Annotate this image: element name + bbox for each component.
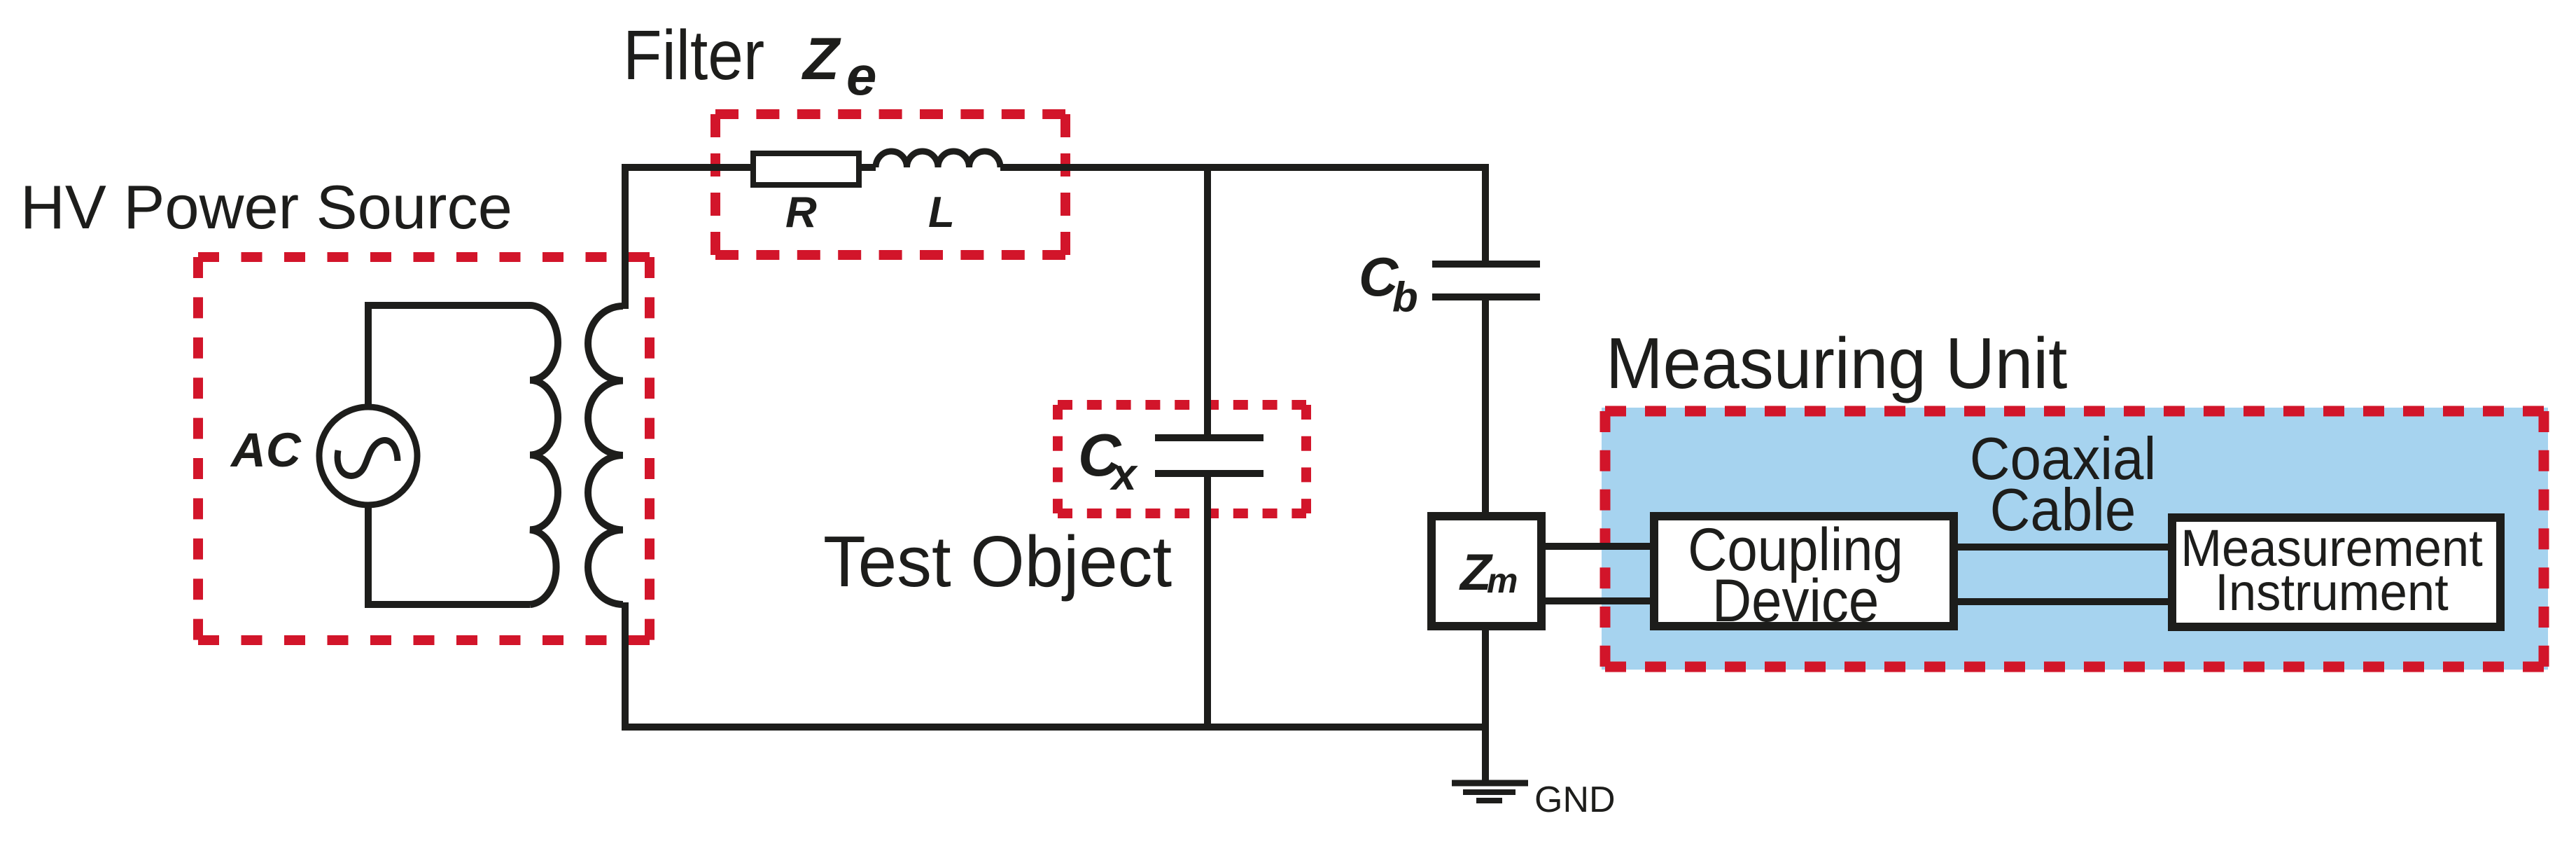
transformer primary coil <box>530 305 558 604</box>
wire: top rail from left branch to Cb corner <box>625 167 1489 171</box>
wire: left vertical (secondary side) top segment <box>622 167 629 309</box>
inductor L <box>876 151 1000 167</box>
wire: Zm to coupling device (lower) <box>1543 597 1652 604</box>
svg-text:Test Object: Test Object <box>823 521 1172 602</box>
wire: Cb bottom lead to Zm <box>1482 297 1489 512</box>
wire: Cb top lead <box>1482 164 1489 264</box>
wire: Zm to ground vertical <box>1482 630 1489 783</box>
resistor R <box>753 153 859 185</box>
wire: primary loop (top, left, bottom) <box>368 305 530 604</box>
svg-text:GND: GND <box>1534 780 1616 820</box>
wire: left vertical bottom segment to bottom rail <box>622 602 629 731</box>
impedance Zm box <box>1431 516 1541 626</box>
capacitor Cb <box>1432 264 1540 297</box>
wire: bottom rail <box>622 724 1486 731</box>
coupling device box <box>1654 516 1954 626</box>
label Measurement Instrument <box>2180 520 2482 622</box>
wire: coaxial cable upper <box>1956 544 2170 551</box>
svg-text:Filter: Filter <box>623 16 764 95</box>
wire: coaxial cable lower <box>1956 598 2170 605</box>
label Coupling Device <box>1688 517 1903 635</box>
svg-text:b: b <box>1392 274 1418 321</box>
Measuring Unit dashed box <box>1605 411 2544 667</box>
svg-text:Instrument: Instrument <box>2215 565 2448 622</box>
label Coaxial Cable <box>1970 426 2156 544</box>
ground GND symbol <box>1452 783 1528 801</box>
wire: Cx bottom lead <box>1204 473 1211 727</box>
measurement instrument box <box>2172 518 2500 627</box>
Filter Ze dashed box <box>715 114 1065 255</box>
svg-text:Device: Device <box>1712 568 1879 635</box>
svg-text:R: R <box>785 188 817 237</box>
svg-text:x: x <box>1109 449 1138 499</box>
svg-text:HV Power Source: HV Power Source <box>20 172 512 242</box>
svg-text:Z: Z <box>801 26 841 92</box>
capacitor Cx <box>1155 438 1263 473</box>
measuring unit blue background <box>1602 408 2548 670</box>
svg-text:Cable: Cable <box>1990 477 2136 544</box>
svg-text:e: e <box>846 45 876 106</box>
svg-text:L: L <box>928 188 955 237</box>
wire: Cx top lead <box>1204 167 1211 438</box>
AC sine glyph <box>337 441 398 476</box>
wire: Zm to coupling device (upper) <box>1543 543 1652 550</box>
svg-text:Measuring Unit: Measuring Unit <box>1606 324 2067 404</box>
svg-text:AC: AC <box>230 423 302 477</box>
HV Power Source dashed box <box>198 257 650 640</box>
transformer secondary coil <box>588 306 623 604</box>
svg-text:m: m <box>1487 561 1518 600</box>
AC source circle <box>319 407 417 505</box>
Cx dashed box <box>1058 405 1306 513</box>
